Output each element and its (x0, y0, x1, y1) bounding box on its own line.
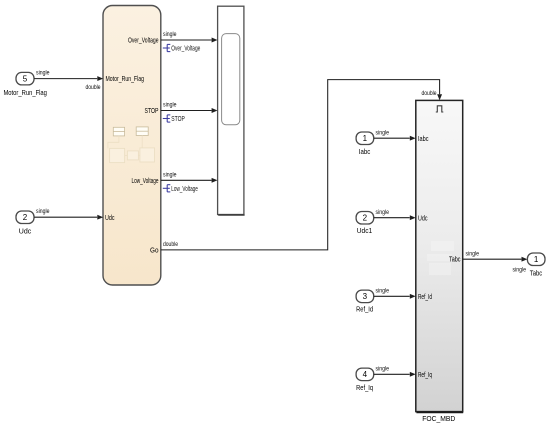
inport 1 Iabc (356, 132, 374, 145)
U1 content preview constant block B (136, 127, 148, 136)
svg-text:single: single (163, 172, 177, 179)
U2 content preview inner block (222, 34, 240, 125)
U1 content preview constant block A (113, 127, 124, 136)
wire Iabc to U3 (374, 136, 416, 141)
svg-text:Udc: Udc (19, 227, 32, 236)
U3 trigger port symbol (436, 106, 444, 112)
svg-text:5: 5 (23, 74, 28, 83)
svg-text:single: single (513, 267, 527, 274)
wire STOP U1 to U2 (161, 108, 218, 113)
wire Tabc U3 to outport (463, 257, 528, 262)
svg-text:Tabc: Tabc (449, 255, 461, 264)
signal tag icon Low_Voltage (163, 185, 171, 192)
outport 1 Tabc (527, 253, 545, 266)
signal tag icon STOP (163, 115, 171, 122)
subsystem U1 protection-logic block (103, 6, 161, 286)
svg-text:single: single (36, 70, 50, 77)
svg-text:double: double (163, 241, 178, 248)
svg-text:Ref_Id: Ref_Id (356, 305, 373, 314)
svg-text:single: single (376, 209, 390, 216)
svg-text:Iabc: Iabc (359, 147, 371, 156)
svg-text:3: 3 (363, 292, 368, 301)
inport 2 Udc (16, 211, 34, 224)
subsystem U2 stop block (218, 6, 245, 215)
U1 content preview subsystem D (140, 148, 155, 162)
inport 4 Ref_Iq (356, 368, 374, 381)
U1 content preview subsystem C (110, 148, 125, 162)
svg-text:1: 1 (534, 255, 539, 264)
svg-text:single: single (376, 366, 390, 373)
inport 3 Ref_Id (356, 290, 374, 303)
svg-text:Go: Go (150, 245, 159, 254)
svg-text:Ref_Iq: Ref_Iq (418, 370, 432, 379)
svg-text:Low_Voltage: Low_Voltage (171, 184, 198, 193)
svg-text:Low_Voltage: Low_Voltage (132, 176, 159, 185)
wire Udc1 to U3 (374, 215, 416, 220)
signal tag icon Over_Voltage (163, 44, 171, 51)
svg-text:1: 1 (363, 134, 368, 143)
U1 content preview wires (108, 136, 142, 156)
svg-text:Motor_Run_Flag: Motor_Run_Flag (106, 74, 145, 83)
svg-text:single: single (36, 208, 50, 215)
svg-text:Motor_Run_Flag: Motor_Run_Flag (3, 88, 47, 97)
svg-text:Ref_Iq: Ref_Iq (356, 383, 373, 392)
svg-text:single: single (163, 102, 177, 109)
svg-text:Iabc: Iabc (418, 134, 429, 143)
U1 content preview block E (127, 151, 138, 160)
svg-text:2: 2 (23, 213, 28, 222)
wire Udc to U1 (34, 215, 103, 220)
svg-text:FOC_MBD: FOC_MBD (422, 414, 455, 423)
wire Go U1 to U3 trigger (161, 80, 442, 250)
wire Ref_Id to U3 (374, 294, 416, 299)
svg-text:Udc: Udc (105, 213, 115, 222)
wire Low_Voltage U1 to U2 (161, 178, 218, 183)
subsystem U3 FOC_MBD block (416, 100, 463, 412)
svg-text:2: 2 (363, 214, 368, 223)
inport 2 Udc1 (356, 212, 374, 225)
svg-text:Over_Voltage: Over_Voltage (128, 36, 159, 45)
wire Ref_Iq to U3 (374, 372, 416, 377)
svg-text:double: double (422, 90, 437, 97)
svg-text:Ref_Id: Ref_Id (418, 292, 432, 301)
svg-text:Udc1: Udc1 (357, 226, 373, 235)
wire Over_Voltage U1 to U2 (161, 38, 218, 43)
svg-text:Udc: Udc (418, 213, 428, 222)
wire Motor_Run_Flag to U1 (34, 76, 103, 81)
svg-text:STOP: STOP (145, 106, 159, 115)
svg-text:single: single (163, 31, 177, 38)
svg-text:single: single (376, 288, 390, 295)
svg-text:single: single (376, 129, 390, 136)
svg-text:Tabc: Tabc (530, 269, 543, 278)
U3 content preview ghost (427, 241, 454, 275)
inport 5 Motor_Run_Flag (16, 72, 34, 85)
svg-text:single: single (466, 250, 480, 257)
svg-text:STOP: STOP (171, 114, 185, 123)
svg-text:Over_Voltage: Over_Voltage (171, 44, 200, 53)
svg-text:double: double (86, 84, 101, 91)
svg-text:4: 4 (363, 370, 368, 379)
